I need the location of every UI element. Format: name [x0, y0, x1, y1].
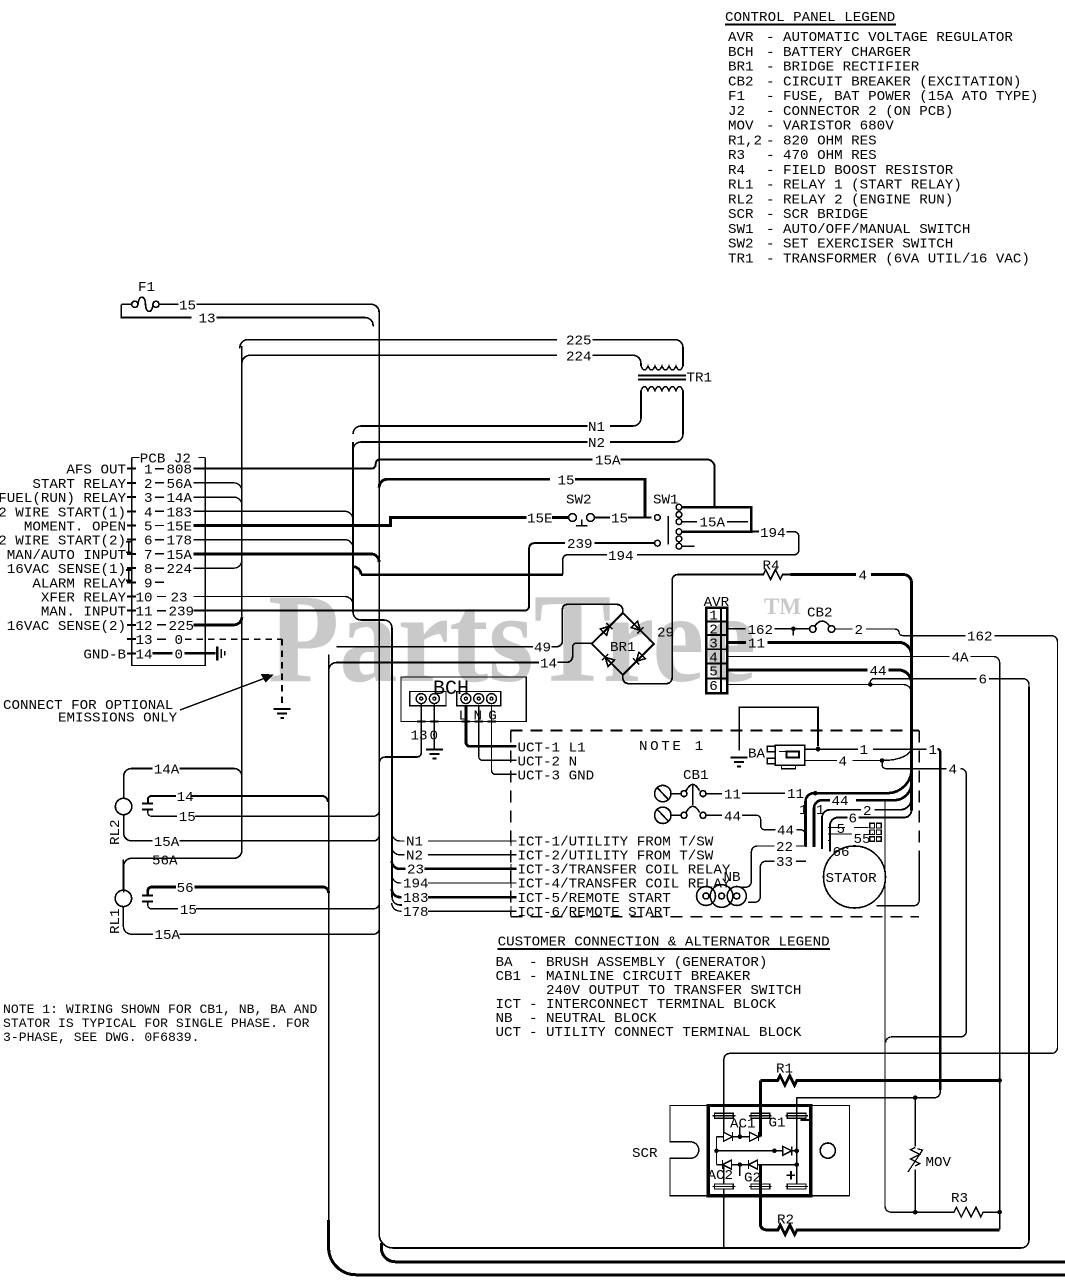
svg-text:CB2: CB2 [807, 605, 833, 621]
trunk fan line 44 into stator [814, 783, 912, 847]
svg-text:15: 15 [179, 299, 196, 315]
svg-text:6: 6 [709, 679, 718, 695]
wire 15 RL1 contact [148, 901, 379, 908]
svg-text:- SET EXERCISER SWITCH: - SET EXERCISER SWITCH [766, 237, 953, 253]
svg-text:J2: J2 [728, 104, 745, 120]
svg-text:- AUTOMATIC VOLTAGE REGULATOR: - AUTOMATIC VOLTAGE REGULATOR [766, 30, 1013, 46]
svg-text:15: 15 [611, 512, 628, 528]
wire 14 from bus L to BR1 left [329, 643, 593, 670]
svg-text:15A: 15A [595, 454, 621, 470]
svg-text:UCT-3 GND: UCT-3 GND [518, 768, 595, 784]
junction ticks BCH box bottom [417, 720, 496, 722]
legend row CB2 [728, 74, 1021, 90]
SCR pads bottom row [713, 1184, 808, 1189]
wire 14A pin3 [194, 497, 242, 505]
BR1 diode upper-right [631, 621, 643, 633]
svg-text:1: 1 [929, 743, 938, 759]
BR1 diode lower-right [633, 652, 645, 664]
svg-text:BR1: BR1 [728, 60, 754, 76]
svg-text:4A: 4A [952, 651, 970, 667]
trunk fan line 6 into stator [830, 810, 912, 851]
wire 22 to NB [741, 846, 806, 887]
svg-text:4: 4 [859, 569, 868, 585]
svg-text:TM: TM [764, 594, 801, 619]
svg-text:- CIRCUIT BREAKER (EXCITATION): - CIRCUIT BREAKER (EXCITATION) [766, 74, 1021, 90]
trunk vertical [910, 583, 913, 811]
breaker CB2 [807, 605, 835, 632]
wire 225 [240, 340, 557, 349]
svg-text:- 820 OHM RES: - 820 OHM RES [766, 133, 877, 149]
J2 pin ticks [127, 469, 136, 654]
wire 15E pin5 [194, 518, 569, 526]
svg-text:4: 4 [949, 763, 958, 779]
svg-text:CUSTOMER CONNECTION & ALTERNAT: CUSTOMER CONNECTION & ALTERNATOR LEGEND [498, 935, 830, 951]
ground optional emissions [274, 709, 291, 718]
fuse F1 [121, 280, 178, 311]
L N G labels [459, 709, 497, 725]
wire 56 RL1 contact to bus L [148, 887, 329, 895]
wire 225 pin12 [194, 617, 242, 625]
legend: customer connection title [498, 935, 830, 951]
wire 15 RL2 contact [148, 810, 379, 817]
neutral block NB [697, 870, 747, 907]
svg-text:CB1: CB1 [496, 969, 522, 985]
svg-text:29: 29 [657, 626, 674, 642]
bus A x242 (225/224 riser) [124, 346, 242, 892]
wire 194 right of SW1 [751, 531, 759, 533]
svg-text:13: 13 [411, 729, 428, 745]
svg-text:15: 15 [558, 473, 575, 489]
wire N2 [353, 391, 683, 450]
svg-text:BR1: BR1 [610, 640, 636, 656]
J2 number-value dashes [155, 469, 166, 639]
svg-text:SW1: SW1 [728, 222, 754, 238]
svg-text:- BATTERY CHARGER: - BATTERY CHARGER [766, 45, 911, 61]
svg-text:R4: R4 [728, 163, 745, 179]
svg-text:194: 194 [760, 526, 786, 542]
svg-text:AC1: AC1 [730, 1117, 756, 1133]
stator [824, 846, 886, 908]
wire 224 pin8 [194, 560, 242, 568]
svg-text:13: 13 [199, 312, 216, 328]
svg-text:N2: N2 [588, 436, 605, 452]
wire 44 riser to R3 [885, 800, 892, 1212]
svg-text:14: 14 [540, 657, 557, 673]
arrow to emissions wire [180, 679, 264, 711]
svg-text:224: 224 [167, 562, 193, 578]
svg-text:AC2: AC2 [708, 1168, 734, 1184]
trunk fan line 11 into stator [806, 769, 912, 846]
legend row SW2 [728, 237, 953, 253]
legend: control panel legend title [725, 10, 896, 26]
svg-text:R3: R3 [951, 1191, 968, 1207]
svg-text:15A: 15A [700, 516, 726, 532]
ground BCH [426, 750, 443, 759]
wire 2 CB2 to 162 riser [835, 628, 853, 630]
svg-text:SW1: SW1 [653, 493, 679, 509]
svg-text:RL2: RL2 [728, 192, 754, 208]
frame inner line [381, 1243, 1065, 1262]
svg-text:44: 44 [832, 794, 849, 810]
svg-text:F1: F1 [728, 89, 745, 105]
SCR module body [708, 1106, 811, 1196]
svg-text:44: 44 [777, 824, 794, 840]
svg-text:3-PHASE, SEE DWG. 0F6839.: 3-PHASE, SEE DWG. 0F6839. [3, 1030, 199, 1045]
SCR left tab with notch [670, 1106, 708, 1196]
BA ground [731, 758, 748, 767]
legend row J2 [728, 104, 953, 120]
svg-text:225: 225 [566, 334, 592, 350]
legend row 240V [546, 983, 801, 999]
switch SW2 [527, 493, 652, 528]
stub 5 with connector [828, 827, 869, 829]
legend row NB [496, 1011, 658, 1027]
svg-text:44: 44 [870, 664, 887, 680]
svg-text:162: 162 [967, 629, 993, 645]
bus L vertical [328, 655, 330, 1222]
stub 66 [828, 840, 831, 842]
wire 0 pin13 dashed [185, 639, 282, 705]
SCR right tab [811, 1106, 850, 1196]
UCT labels [518, 740, 595, 784]
wire 14A RL2 top [124, 769, 242, 799]
svg-text:1: 1 [860, 743, 869, 759]
wire 56A pin2 [194, 483, 242, 491]
svg-text:11: 11 [724, 787, 741, 803]
wire 183 pin4 [194, 511, 353, 519]
svg-text:TR1: TR1 [687, 371, 713, 387]
wire 808 / 15A to SW1 [194, 459, 715, 507]
legend row R3 [728, 148, 877, 164]
svg-text:14: 14 [135, 647, 152, 663]
legend row R4 [728, 163, 954, 179]
regulator AVR connector [704, 595, 730, 695]
wire 29 BR1 bottom to R4 line [623, 575, 757, 684]
wire 15A RL2 bottom [124, 815, 380, 841]
svg-text:- BRIDGE RECTIFIER: - BRIDGE RECTIFIER [766, 60, 920, 76]
ICT row ticks [510, 836, 512, 916]
wire 178 pin6 [194, 540, 353, 548]
UCT row ticks [506, 746, 517, 774]
legend row RL1 [728, 178, 962, 194]
legend row F1 [728, 89, 1038, 105]
frame outer line [329, 1220, 1065, 1275]
svg-text:- AUTO/OFF/MANUAL SWITCH: - AUTO/OFF/MANUAL SWITCH [766, 222, 970, 238]
svg-text:44: 44 [724, 809, 741, 825]
legend row AVR [728, 30, 1013, 46]
legend row SW1 [728, 222, 970, 238]
svg-text:0: 0 [430, 729, 439, 745]
bus N x353 with jog to x391.8 [353, 442, 402, 905]
svg-text:- SCR BRIDGE: - SCR BRIDGE [766, 207, 868, 223]
wire 6 branch to riser [870, 679, 1029, 687]
legend row ICT [496, 997, 777, 1013]
svg-text:EMISSIONS ONLY: EMISSIONS ONLY [58, 711, 178, 727]
svg-text:RL2: RL2 [108, 819, 124, 845]
RL1 contact bars [142, 895, 153, 901]
junction tick at CB2 lead [791, 627, 796, 632]
wire 4 from R4 to trunk [791, 573, 857, 576]
J2 wire values [167, 463, 195, 664]
svg-text:- VARISTOR 680V: - VARISTOR 680V [766, 119, 894, 135]
note text bottom left [3, 1002, 317, 1045]
svg-text:49: 49 [534, 641, 551, 657]
svg-text:STATOR IS TYPICAL FOR SINGLE P: STATOR IS TYPICAL FOR SINGLE PHASE. FOR [3, 1016, 310, 1031]
svg-text:224: 224 [566, 349, 592, 365]
gnd-b terminal symbol pin14 [216, 646, 219, 660]
svg-text:- UTILITY CONNECT TERMINAL BLO: - UTILITY CONNECT TERMINAL BLOCK [529, 1025, 802, 1041]
svg-text:239: 239 [567, 537, 593, 553]
wire 0 BCH to ground [433, 704, 435, 749]
legend row TR1 [728, 251, 1030, 267]
note 1 dashed box [511, 731, 920, 917]
connect for optional emissions note [3, 698, 178, 727]
wire 13 from F1 [121, 304, 373, 326]
connector J2 box [132, 452, 205, 666]
wire 15 thick run to SW2/SW1 [379, 479, 550, 487]
svg-text:STATOR: STATOR [826, 871, 878, 887]
legend row BA [496, 955, 768, 971]
svg-text:- RELAY 1 (START RELAY): - RELAY 1 (START RELAY) [766, 178, 962, 194]
svg-text:- TRANSFORMER (6VA UTIL/16 VAC: - TRANSFORMER (6VA UTIL/16 VAC) [766, 251, 1030, 267]
svg-text:MOV: MOV [728, 119, 754, 135]
legend row SCR [728, 207, 868, 223]
wire 49 from bus L to BR1 top [337, 604, 623, 646]
SCR pads top row [713, 1113, 808, 1118]
svg-text:RL1: RL1 [728, 178, 754, 194]
thyristor gate G2 drop thick [760, 1165, 773, 1230]
svg-text:CB2: CB2 [728, 74, 754, 90]
svg-text:CONTROL PANEL LEGEND: CONTROL PANEL LEGEND [725, 10, 895, 26]
brush assembly BA feed rectangle [739, 707, 818, 750]
svg-text:15: 15 [180, 903, 197, 919]
svg-text:16VAC SENSE(2): 16VAC SENSE(2) [7, 619, 126, 635]
svg-text:22: 22 [776, 840, 793, 856]
svg-text:11: 11 [748, 636, 765, 652]
wire 44 CB1 to bundle [706, 814, 722, 816]
bridge rectifier BR1 [592, 613, 654, 675]
svg-text:5: 5 [709, 665, 718, 681]
svg-text:SCR: SCR [632, 1146, 658, 1162]
svg-text:2: 2 [855, 623, 864, 639]
wire 1 BA to riser [805, 748, 927, 750]
J2 left signal names [0, 463, 126, 664]
svg-text:BA: BA [748, 747, 766, 763]
BR1 diode lower-left [602, 654, 614, 666]
svg-text:R3: R3 [728, 148, 745, 164]
svg-text:SW2: SW2 [566, 493, 592, 509]
J2 pair bracket pins 8-9 [126, 570, 132, 581]
wire 15A RL1 bottom [123, 907, 379, 935]
legend row BR1 [728, 60, 920, 76]
wire N1 [353, 391, 641, 434]
J2 pair bracket pins 6-7 [126, 542, 132, 553]
BCH terminal strip L N G [457, 692, 501, 706]
svg-text:- 470 OHM RES: - 470 OHM RES [766, 148, 877, 164]
svg-text:MOV: MOV [926, 1155, 952, 1171]
svg-text:15: 15 [179, 810, 196, 826]
trunk fan line 2 into stator [822, 798, 912, 849]
thyristor gate G1 riser thick [759, 1080, 762, 1136]
wire AC2 to inner loop [723, 1189, 725, 1248]
svg-text:- RELAY 2 (ENGINE RUN): - RELAY 2 (ENGINE RUN) [766, 192, 953, 208]
svg-text:R1,2: R1,2 [728, 133, 762, 149]
legend row MOV [728, 119, 894, 135]
RL2 contact bars [142, 804, 153, 810]
stator frame wire right [876, 853, 919, 906]
svg-text:BCH: BCH [433, 678, 469, 701]
breaker CB1 [655, 768, 709, 824]
SCR diode row 1 [717, 1132, 761, 1141]
connector glyphs [870, 823, 881, 841]
svg-text:- FUSE, BAT POWER (15A ATO TYP: - FUSE, BAT POWER (15A ATO TYPE) [766, 89, 1038, 105]
svg-text:14: 14 [177, 790, 194, 806]
legend row R1,2 [728, 133, 877, 149]
wire 224 [242, 355, 557, 363]
svg-text:56A: 56A [152, 854, 178, 870]
varistor MOV [914, 1098, 916, 1213]
svg-text:SW2: SW2 [728, 237, 754, 253]
watermark PartsTree [268, 569, 801, 709]
svg-text:F1: F1 [138, 280, 155, 296]
BR1 diode upper-left [600, 623, 612, 635]
svg-text:178: 178 [403, 905, 429, 921]
wire 239 pin11 [194, 543, 566, 611]
svg-text:NOTE 1: NOTE 1 [639, 739, 706, 755]
ICT rows wires [392, 833, 517, 841]
ICT labels [518, 835, 731, 921]
transformer TR1 [638, 366, 712, 391]
stub 55 with connector [828, 833, 852, 835]
wire UCT-1 from L [466, 706, 516, 747]
wire 0 pin14 [153, 652, 216, 655]
wire 11 AVR pin3 thick [727, 642, 911, 655]
wire UCT-3 from G [492, 706, 517, 775]
battery charger BCH box [401, 677, 526, 722]
wire 14 RL2 contact to bus L [148, 796, 328, 804]
svg-text:4: 4 [839, 755, 848, 771]
wire 11 CB1 to trunk fan [706, 793, 722, 795]
SCR mid row with diode [717, 1146, 797, 1155]
svg-text:1 1: 1 1 [799, 803, 825, 819]
svg-text:5: 5 [837, 822, 846, 838]
svg-text:GND-B: GND-B [83, 647, 126, 663]
SCR diode row 3 [717, 1160, 797, 1169]
wire 4 BA to riser [805, 750, 911, 760]
BCH terminal strip 2-pos [410, 692, 446, 706]
wire 162 AVR pin2 to CB2 [727, 628, 809, 630]
legend row UCT [496, 1025, 802, 1041]
svg-text:N1: N1 [588, 420, 605, 436]
wire 44 AVR pin5 thick [727, 670, 911, 683]
legend row RL2 [728, 192, 953, 208]
svg-text:11: 11 [787, 787, 804, 803]
svg-text:15E: 15E [527, 512, 553, 528]
svg-text:BCH: BCH [728, 45, 754, 61]
legend row BCH [728, 45, 911, 61]
wire 33 to NB [748, 861, 806, 902]
svg-text:33: 33 [776, 855, 793, 871]
svg-text:6: 6 [979, 672, 988, 688]
svg-text:- FIELD BOOST RESISTOR: - FIELD BOOST RESISTOR [766, 163, 954, 179]
wire 23 pin10 [194, 597, 353, 605]
svg-text:TR1: TR1 [728, 251, 754, 267]
svg-text:194: 194 [608, 549, 634, 565]
SCR mounting hole [820, 1143, 835, 1158]
svg-text:6: 6 [849, 812, 858, 828]
svg-text:G2: G2 [744, 1171, 761, 1187]
svg-text:G1: G1 [769, 1115, 786, 1131]
svg-text:CB1: CB1 [683, 768, 709, 784]
wire 4A AVR pin4 riser [727, 657, 999, 1230]
svg-text:PartsTree: PartsTree [268, 569, 756, 709]
switch SW1 [653, 493, 695, 550]
svg-text:UCT: UCT [496, 1025, 522, 1041]
wire 239 thick run from bus N [353, 567, 563, 575]
SCR inner verticals [717, 1098, 797, 1184]
wire 15A pin7 [194, 554, 380, 562]
svg-text:56: 56 [177, 881, 194, 897]
wire 6 AVR pin6 [727, 685, 911, 693]
svg-text:0: 0 [175, 647, 184, 663]
svg-text:- CONNECTOR 2 (ON PCB): - CONNECTOR 2 (ON PCB) [766, 104, 953, 120]
svg-text:NOTE 1: WIRING SHOWN FOR CB1,: NOTE 1: WIRING SHOWN FOR CB1, NB, BA AND [3, 1002, 317, 1017]
relay RL2 coil [115, 798, 131, 814]
brush assembly BA connector [767, 745, 805, 769]
svg-text:SCR: SCR [728, 207, 754, 223]
wire 13 BCH to bus [379, 704, 421, 763]
relay RL1 coil [115, 890, 131, 906]
SW1 strap 15A loop [682, 507, 751, 532]
svg-text:14A: 14A [154, 763, 180, 779]
svg-text:RL1: RL1 [108, 908, 124, 934]
svg-text:15A: 15A [155, 928, 181, 944]
legend row CB1 [496, 969, 751, 985]
J2 pin numbers [135, 463, 152, 664]
main vertical bus x379 (15/13 feed) [379, 312, 1029, 1248]
svg-text:ICT-6/REMOTE START: ICT-6/REMOTE START [518, 905, 671, 921]
wire UCT-2 from N [479, 706, 516, 761]
svg-text:15A: 15A [154, 835, 180, 851]
svg-text:AVR: AVR [728, 30, 754, 46]
